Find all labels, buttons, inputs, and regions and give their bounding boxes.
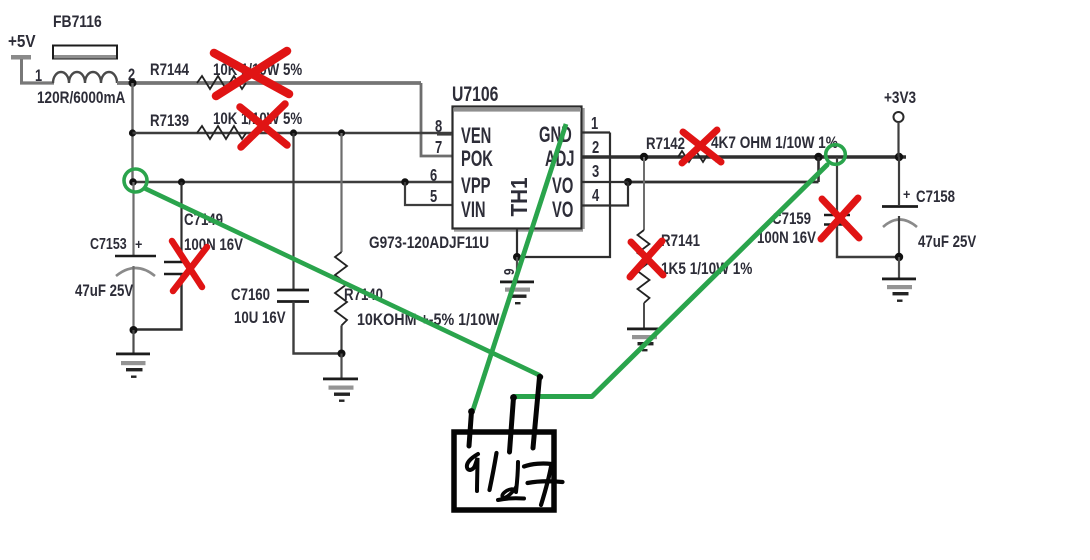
capacitor C7160 xyxy=(231,133,342,354)
svg-text:C7149: C7149 xyxy=(184,211,223,230)
pin 9 thermal pad xyxy=(501,229,518,275)
svg-text:+: + xyxy=(135,236,143,252)
ground G4 xyxy=(627,328,661,352)
box pin 3 top dot xyxy=(537,374,543,380)
svg-text:FB7116: FB7116 xyxy=(53,13,102,32)
resistor R7142 xyxy=(646,134,838,162)
scribble digit 1 (with loop) xyxy=(467,454,478,491)
svg-text:100N 16V: 100N 16V xyxy=(184,236,244,255)
wire net VPP y182 xyxy=(133,181,452,183)
node +5V terminal xyxy=(8,31,36,60)
wire pin3/pin4 tie xyxy=(581,182,628,206)
junction C7149 tap xyxy=(178,178,185,185)
svg-text:VEN: VEN xyxy=(461,123,491,148)
wire VPP to VIN pin5 xyxy=(405,182,452,205)
svg-text:7: 7 xyxy=(435,138,442,158)
svg-text:G973-120ADJF11U: G973-120ADJF11U xyxy=(369,234,489,253)
box pin 1 lead xyxy=(469,412,472,447)
red X over R7141 xyxy=(630,241,663,277)
wire net VEN y133 xyxy=(133,132,453,134)
ground G5 xyxy=(882,278,916,302)
box pin 2 lead xyxy=(510,398,514,453)
capacitor C7158 xyxy=(882,157,977,257)
resistor R7144 xyxy=(150,61,303,89)
svg-text:2: 2 xyxy=(592,138,599,158)
svg-text:VPP: VPP xyxy=(461,173,490,198)
green circle on node A xyxy=(124,169,147,192)
svg-text:VO: VO xyxy=(552,197,573,222)
svg-text:C7158: C7158 xyxy=(916,188,955,207)
red X over R7142 xyxy=(682,130,721,163)
ground G1 xyxy=(116,353,150,378)
svg-text:+: + xyxy=(903,186,911,202)
svg-text:1K5 1/10W 1%: 1K5 1/10W 1% xyxy=(661,260,753,279)
box pin 2 top dot xyxy=(510,394,517,401)
svg-text:C7153: C7153 xyxy=(90,236,127,254)
resistor R7139 xyxy=(150,110,303,139)
wire +5V to FB7116 pin1 xyxy=(20,59,54,83)
ground G3 xyxy=(500,281,534,305)
svg-text:+3V3: +3V3 xyxy=(884,89,916,108)
junction VO pins tie xyxy=(624,178,632,186)
scribble digit 7 xyxy=(524,464,563,505)
red X over C7159 xyxy=(821,198,859,239)
capacitor C7149 xyxy=(134,182,244,330)
svg-text:47uF 25V: 47uF 25V xyxy=(918,233,977,252)
wire net VO y182 rail xyxy=(628,181,819,184)
box pin 1 top dot xyxy=(468,408,475,415)
svg-text:6: 6 xyxy=(430,166,437,186)
green annotation line A (node A to box pin 3) xyxy=(144,188,540,376)
junction VPP/VIN tie xyxy=(401,178,409,186)
junction +3V3 node xyxy=(895,153,903,161)
junction C7160/R7140 ground node xyxy=(338,350,346,358)
wire R7144 to pin7 POK xyxy=(421,83,452,156)
svg-text:U7106: U7106 xyxy=(452,82,498,106)
red X over R7139 value xyxy=(240,104,287,147)
svg-text:POK: POK xyxy=(461,146,493,171)
svg-text:47uF 25V: 47uF 25V xyxy=(75,282,134,301)
green circle on +3V3 rail node xyxy=(826,145,846,165)
scribble slash xyxy=(490,453,497,490)
red X over C7149 xyxy=(172,241,207,291)
svg-text:VO: VO xyxy=(552,173,573,198)
svg-text:TH1: TH1 xyxy=(506,177,532,216)
wire to ground G1 xyxy=(132,330,134,353)
wire to ground G5 xyxy=(898,257,900,278)
wire to ground G3 xyxy=(516,257,518,281)
capacitor C7159 xyxy=(757,157,899,257)
wire pin3 stub xyxy=(581,181,628,183)
junction FB output xyxy=(129,79,137,87)
wire net +5VF horizontal y83 xyxy=(117,81,421,85)
svg-text:10U 16V: 10U 16V xyxy=(234,309,286,328)
svg-text:120R/6000mA: 120R/6000mA xyxy=(37,89,125,108)
svg-text:R7142: R7142 xyxy=(646,135,685,154)
svg-text:R7144: R7144 xyxy=(150,61,190,80)
svg-text:1: 1 xyxy=(35,66,42,85)
svg-text:100N 16V: 100N 16V xyxy=(757,229,817,248)
wire GND pin1 to ground G3 xyxy=(517,133,610,258)
wire net ADJ y157 rail xyxy=(581,155,906,158)
scribble digit 4 cluster xyxy=(498,462,524,500)
op-amp U7106 regulator body xyxy=(452,82,585,232)
junction C7160 tap xyxy=(290,129,297,136)
junction C7153/C7149 ground node xyxy=(130,326,138,334)
resistor R7140 xyxy=(335,133,500,354)
svg-text:R7141: R7141 xyxy=(661,232,701,251)
svg-text:4K7 OHM 1/10W 1%: 4K7 OHM 1/10W 1% xyxy=(711,134,838,153)
green annotation line B (GND pin to box pin 1) xyxy=(473,124,566,410)
wire to ground G2 xyxy=(340,354,342,379)
svg-text:3: 3 xyxy=(592,162,599,182)
node +3V3 terminal xyxy=(884,89,916,157)
junction x132 y133 xyxy=(129,129,136,136)
svg-text:5: 5 xyxy=(430,187,437,207)
svg-text:1: 1 xyxy=(591,114,598,134)
pin 1 xyxy=(581,114,610,134)
svg-text:R7140: R7140 xyxy=(344,286,383,305)
pin 8 xyxy=(435,117,452,137)
green annotation line C (rail node to box pin 2) xyxy=(514,165,827,397)
box pin 3 lead xyxy=(533,377,540,448)
junction node A (circled) xyxy=(129,178,137,186)
resistor R7141 xyxy=(638,157,753,328)
svg-text:VIN: VIN xyxy=(461,197,486,222)
svg-text:+5V: +5V xyxy=(8,31,36,51)
svg-text:C7160: C7160 xyxy=(231,286,270,305)
capacitor C7153 xyxy=(75,182,156,330)
ground G2 xyxy=(323,378,358,402)
svg-text:R7139: R7139 xyxy=(150,112,189,131)
svg-text:4: 4 xyxy=(592,186,599,206)
wire rail to VO rail link xyxy=(817,157,820,182)
wire vertical bus x132 xyxy=(131,83,133,182)
red X over R7144 value xyxy=(214,51,289,96)
connector box (hand-drawn) xyxy=(454,432,554,510)
junction R7140 tap xyxy=(338,129,345,136)
junction pin9 ground node xyxy=(513,253,521,261)
junction R7141 tap xyxy=(640,153,648,161)
ferrite bead FB7116 xyxy=(35,13,135,108)
junction C7158/C7159 ground node xyxy=(895,253,903,261)
junction VO tie to rail xyxy=(814,153,822,161)
